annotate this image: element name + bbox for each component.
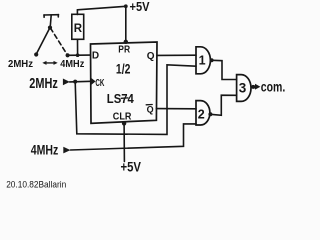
svg-text:D: D [92,51,99,62]
svg-text:2MHz: 2MHz [8,59,33,70]
svg-text:CK: CK [95,78,104,89]
svg-text:R: R [74,23,83,35]
svg-text:CLR: CLR [113,111,132,122]
svg-text:1: 1 [199,54,206,68]
svg-text:+5V: +5V [121,159,142,175]
svg-text:2: 2 [198,107,205,121]
svg-text:+5V: +5V [130,0,150,14]
svg-text:Q: Q [147,104,154,114]
svg-text:20.10.82Ballarin: 20.10.82Ballarin [6,179,66,190]
svg-text:LS74: LS74 [107,92,134,106]
svg-text:4MHz: 4MHz [60,59,84,70]
svg-text:Q: Q [147,51,155,62]
svg-text:2MHz: 2MHz [29,76,58,92]
svg-text:com.: com. [261,79,286,95]
svg-text:3: 3 [239,81,247,96]
svg-text:PR: PR [118,44,130,55]
svg-text:4MHz: 4MHz [31,141,59,157]
svg-text:1/2: 1/2 [116,61,130,76]
